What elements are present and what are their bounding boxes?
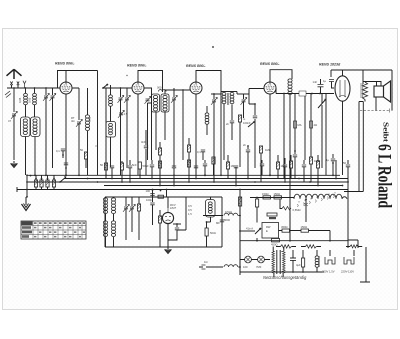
dot x284 bbox=[283, 93, 285, 95]
tube V4 RENS806 bbox=[264, 82, 276, 94]
wire x214 down bbox=[213, 160, 215, 182]
osc cap Cc2 bbox=[146, 197, 155, 225]
svg-text:100: 100 bbox=[243, 265, 248, 269]
cap Ch bbox=[234, 166, 238, 186]
cap above osc top bbox=[146, 189, 155, 195]
bandfilter box 2 bbox=[106, 122, 116, 138]
svg-text:220V-110V: 220V-110V bbox=[341, 270, 354, 274]
svg-text:1837: 1837 bbox=[170, 206, 176, 210]
transformer core vertical bbox=[272, 247, 285, 278]
tube V5 RENS1823d output bbox=[335, 70, 350, 101]
power right vertical bbox=[347, 240, 349, 248]
svg-text:3nF: 3nF bbox=[141, 140, 146, 144]
dial lamp 2 bbox=[256, 256, 264, 269]
resistor 4500 horizontal bbox=[279, 225, 302, 232]
osc coil Ld bbox=[111, 221, 115, 247]
table bottom left bbox=[21, 221, 86, 239]
svg-text:RENS 806/₄: RENS 806/₄ bbox=[186, 64, 206, 68]
svg-text:8000: 8000 bbox=[224, 218, 230, 222]
svg-text:41tr A: 41tr A bbox=[246, 227, 253, 231]
bus right angle down bbox=[347, 182, 349, 240]
svg-text:4,5: 4,5 bbox=[124, 112, 128, 116]
osc cap Cd2 bbox=[168, 223, 181, 240]
grid line V2 bbox=[103, 87, 132, 89]
dot coupling bbox=[311, 93, 313, 95]
resistor mid MA bbox=[294, 121, 302, 128]
osc tube wires bbox=[167, 197, 169, 247]
cap mid V3 bbox=[197, 150, 205, 160]
trimmer C6b left of IF1 bbox=[145, 96, 151, 160]
ground trunk bbox=[26, 175, 28, 197]
cap Ce bbox=[172, 166, 176, 186]
svg-text:RW: RW bbox=[266, 225, 271, 229]
speaker bbox=[363, 81, 391, 102]
vertical x290 bbox=[289, 213, 291, 241]
cap C9a below IF2 bbox=[226, 105, 234, 141]
cathode cap V1 bbox=[56, 149, 65, 158]
scan speck 2 bbox=[126, 75, 127, 76]
IF transformer 1 box a bbox=[152, 94, 160, 112]
osc resistor Rb2 bbox=[158, 210, 161, 247]
wire roof drop join bbox=[97, 71, 99, 176]
field choke bbox=[294, 192, 347, 207]
svg-text:MF: MF bbox=[216, 221, 220, 225]
cap C11 1nF bbox=[313, 79, 324, 94]
cap Cl bbox=[326, 154, 335, 175]
anode roof V2 bbox=[138, 71, 163, 93]
svg-text:MA: MA bbox=[298, 123, 302, 127]
junction dots row A bbox=[34, 174, 334, 176]
cap C7 below IF1 bbox=[141, 130, 148, 175]
cap row Cb bbox=[110, 166, 114, 179]
osc resistor Rc2 right bbox=[205, 222, 216, 247]
svg-text:0,5: 0,5 bbox=[188, 208, 192, 212]
IF transformer 2 bbox=[221, 92, 237, 161]
resistor Rg bbox=[259, 146, 270, 182]
svg-text:2n: 2n bbox=[243, 143, 246, 147]
table cell smudges bbox=[34, 222, 85, 237]
ground small left bbox=[11, 161, 18, 167]
wire v3 grid drop bbox=[182, 90, 184, 160]
wire x336 bbox=[335, 160, 337, 179]
lamp wires bbox=[240, 259, 270, 261]
osc coil Ld right bbox=[206, 197, 216, 223]
coil L3 right of V1 bbox=[85, 88, 91, 175]
resistor Rd bbox=[158, 161, 161, 186]
wire x284 bbox=[283, 94, 285, 179]
svg-text:0,5t/A: 0,5t/A bbox=[225, 210, 232, 214]
resistor Rb bbox=[120, 161, 123, 182]
trimmer C5 bbox=[124, 88, 130, 168]
svg-text:0,05: 0,05 bbox=[18, 97, 22, 103]
dot v4 bus bbox=[269, 174, 271, 176]
tube V3 RENS806 IF amp bbox=[190, 82, 202, 94]
antenna bbox=[5, 69, 26, 97]
voltage selector bbox=[322, 250, 354, 274]
svg-text:100nF: 100nF bbox=[243, 121, 251, 125]
coil L4 bbox=[109, 85, 113, 122]
small rect comp above box bbox=[267, 213, 277, 219]
svg-text:150Ω: 150Ω bbox=[262, 192, 269, 196]
anode roof V5 to output transformer bbox=[331, 70, 392, 111]
electrolytic cap power bbox=[290, 250, 301, 272]
svg-text:150Ω: 150Ω bbox=[301, 225, 308, 229]
anode out V2 bbox=[144, 88, 152, 160]
component row above bus: resistor Ra bbox=[100, 163, 108, 179]
wire x106 bbox=[105, 88, 107, 175]
resistor Rc 'MAL' bbox=[138, 162, 149, 179]
svg-text:1MΩ: 1MΩ bbox=[265, 148, 271, 152]
cathode drop V3 bbox=[195, 94, 197, 175]
svg-text:0,05: 0,05 bbox=[28, 97, 32, 103]
tube V1 RENS806 bbox=[60, 82, 72, 94]
bus line 2 bbox=[64, 178, 348, 180]
detector coil row 1 bbox=[203, 210, 240, 216]
power mid line bbox=[240, 240, 348, 242]
dashed ref line right bbox=[360, 110, 390, 112]
svg-text:50tΩ: 50tΩ bbox=[210, 231, 216, 235]
grid line V4 bbox=[249, 89, 264, 105]
trimmer C1 bbox=[43, 88, 49, 175]
coil L2 bbox=[28, 88, 37, 117]
cap Cc bbox=[128, 160, 137, 182]
svg-text:4Ω: 4Ω bbox=[314, 123, 318, 127]
svg-text:RENS 1823d: RENS 1823d bbox=[319, 63, 341, 67]
svg-text:50: 50 bbox=[80, 148, 83, 152]
svg-text:100: 100 bbox=[146, 189, 151, 193]
resistor top power trunk bbox=[239, 197, 242, 206]
cap C10 coupling bbox=[299, 91, 306, 96]
mains transformer primary winding bbox=[276, 245, 296, 248]
svg-text:1Ω: 1Ω bbox=[204, 260, 208, 264]
cap Cf bbox=[194, 160, 198, 179]
cathode drop V4 bbox=[269, 94, 271, 175]
power box RW bbox=[262, 223, 279, 239]
oscillator block frame bbox=[105, 197, 222, 247]
cathode resistor V1 bbox=[80, 148, 88, 168]
svg-text:0,1: 0,1 bbox=[197, 150, 201, 154]
cap on osc right edge bbox=[216, 217, 224, 226]
switch arrow mid power bbox=[239, 227, 261, 235]
svg-text:Seibt: Seibt bbox=[382, 122, 391, 143]
wire x305 bbox=[304, 96, 306, 160]
cathode drop V2 bbox=[137, 94, 139, 175]
svg-text:000: 000 bbox=[157, 86, 162, 90]
resistor R2 below IF2 bbox=[238, 115, 251, 167]
junction dots row D bbox=[159, 185, 343, 187]
anode coil L5 bbox=[288, 79, 292, 240]
wire antenna trunk down bbox=[13, 88, 15, 112]
grid stopper cap bbox=[323, 79, 334, 88]
speaker terminal wire bbox=[375, 97, 377, 111]
trimmer C6 bbox=[171, 88, 177, 167]
cathode drop V1 bbox=[65, 94, 67, 175]
svg-text:E: E bbox=[266, 229, 268, 233]
svg-text:RENS 806/₄: RENS 806/₄ bbox=[260, 62, 280, 66]
cap Ck bbox=[309, 94, 319, 183]
right coil small bbox=[315, 250, 319, 272]
svg-text:1,5: 1,5 bbox=[188, 212, 192, 216]
main grid line (top bus) bbox=[7, 87, 79, 89]
resistor Rh 1M right bbox=[276, 155, 286, 179]
resistor mid 4ohm bbox=[310, 121, 317, 128]
trimmer C8 bbox=[211, 93, 221, 160]
choke feed resistors 150ohm bbox=[250, 192, 294, 199]
resistor 1500 horizontal bbox=[301, 225, 331, 241]
svg-text:7MF: 7MF bbox=[256, 265, 262, 269]
bus line 5 bbox=[17, 189, 348, 191]
svg-text:1µ: 1µ bbox=[326, 158, 329, 162]
wires middle verticals to lower blocks bbox=[153, 190, 241, 198]
detector coil row 2 bbox=[199, 260, 240, 269]
dial lamp 1 bbox=[243, 256, 251, 269]
aux winding right bbox=[346, 245, 362, 248]
trimmer C3 below V1 bbox=[71, 88, 82, 175]
cathode drop V5 bbox=[342, 101, 344, 175]
svg-text:50nF: 50nF bbox=[143, 164, 149, 168]
bus line 3 bbox=[27, 181, 348, 183]
volume pot arrow bbox=[318, 94, 326, 169]
resistor Rf 1M bbox=[226, 155, 235, 179]
small cap on trunk bbox=[64, 163, 68, 175]
trimmer 4,5 mid bbox=[118, 110, 128, 117]
cap extra row 2 bbox=[302, 160, 306, 182]
right power edge line bbox=[360, 247, 370, 282]
svg-text:150Ω: 150Ω bbox=[274, 192, 281, 196]
svg-text:100p: 100p bbox=[146, 198, 152, 202]
svg-text:RENS 806/₄: RENS 806/₄ bbox=[55, 62, 75, 66]
resistor under trimmer bbox=[212, 157, 215, 176]
wire x326 bbox=[325, 94, 327, 176]
junction dots input bbox=[13, 87, 15, 89]
bottom return line right bbox=[344, 191, 363, 193]
wave switch S1 bbox=[102, 84, 108, 89]
resistor R1 bbox=[158, 142, 161, 175]
junction dots row C bbox=[97, 181, 311, 183]
cathode resistor V3 bbox=[187, 138, 190, 168]
scan speck 1 bbox=[212, 46, 214, 48]
resistor vertical top power bbox=[256, 197, 259, 223]
resistor Rj bbox=[316, 155, 319, 186]
tube V6 RCV1837 bbox=[162, 208, 173, 224]
resistor power right bbox=[302, 250, 305, 272]
svg-text:47: 47 bbox=[8, 119, 11, 123]
anode roof V3 bbox=[196, 71, 221, 95]
resistor below box bbox=[271, 239, 280, 247]
svg-text:4µF: 4µF bbox=[296, 263, 301, 267]
wires IF1 bbox=[148, 90, 166, 150]
osc inner wire bbox=[177, 197, 186, 230]
power left vertical bbox=[239, 197, 241, 272]
svg-text:Netzanschlussgetändig: Netzanschlussgetändig bbox=[263, 275, 307, 280]
wires under bandfilter1 bbox=[26, 137, 36, 176]
svg-text:0,5: 0,5 bbox=[188, 204, 192, 208]
svg-text:6 L Roland: 6 L Roland bbox=[374, 144, 394, 209]
small rect on osc top line bbox=[158, 190, 164, 199]
trimmer C8b right bbox=[237, 94, 249, 118]
coupling line V5 bbox=[276, 88, 334, 94]
switch arrow mid bbox=[248, 121, 255, 127]
cap C9 below IF2 bbox=[253, 103, 257, 168]
output transformer coil bbox=[361, 82, 368, 102]
bus line 1 bbox=[27, 174, 340, 176]
IF transformer 1 box b bbox=[161, 94, 169, 112]
coupling coil on IF1 top bbox=[157, 86, 166, 92]
cap extra row 1 bbox=[260, 160, 264, 175]
scan speck 3 bbox=[95, 145, 96, 146]
mains transformer secondary winding bbox=[301, 245, 321, 248]
grid cap stub V1 bbox=[65, 71, 67, 83]
bandfilter box 1a bbox=[21, 117, 31, 137]
cap Ci bbox=[243, 143, 250, 179]
wire x221 down bbox=[220, 160, 222, 175]
cap Cd bbox=[150, 160, 154, 179]
osc resistor Ra2 bbox=[137, 197, 140, 240]
power bottom line bbox=[240, 271, 324, 273]
junction dots row E bbox=[152, 189, 241, 191]
switch arrow on bus bbox=[59, 174, 67, 183]
osc coil Lb bbox=[103, 221, 107, 247]
trimmer C4 bbox=[118, 88, 124, 175]
grid line V3 bbox=[165, 89, 190, 91]
svg-text:4Ω: 4Ω bbox=[71, 119, 75, 123]
resistor extra row 1 bbox=[289, 155, 292, 179]
main ground bbox=[22, 197, 31, 211]
trimmer on antenna trunk bbox=[8, 111, 17, 160]
junction dots row B bbox=[87, 178, 337, 180]
tube V2 RENS806 mixer bbox=[132, 82, 144, 94]
svg-text:450Ω: 450Ω bbox=[281, 225, 288, 229]
osc trimmer Cb2 bbox=[129, 197, 135, 232]
wire x240 down bbox=[239, 197, 241, 275]
cap on right drop bbox=[343, 160, 350, 182]
output transformer drops bbox=[359, 102, 363, 192]
svg-text:2n: 2n bbox=[226, 122, 229, 126]
svg-text:RENS 806/₄: RENS 806/₄ bbox=[127, 64, 147, 68]
cap Cj bbox=[283, 158, 287, 182]
trimmer C2 bbox=[50, 88, 56, 168]
osc coil Lc bbox=[111, 197, 115, 221]
resistor row between buses bbox=[34, 175, 37, 190]
zigzag resistor 0,5M bbox=[280, 200, 300, 213]
dot under choke bbox=[304, 199, 308, 222]
bus left T end bbox=[16, 187, 18, 192]
svg-text:1µ: 1µ bbox=[323, 79, 326, 83]
svg-text:50: 50 bbox=[100, 163, 103, 167]
svg-text:50: 50 bbox=[343, 161, 346, 165]
svg-text:1nF: 1nF bbox=[313, 80, 318, 84]
resistor Ri bbox=[293, 94, 297, 179]
wire from return to transformer bbox=[348, 240, 358, 248]
AVC choke coil bbox=[205, 106, 209, 135]
coil L1 bbox=[18, 88, 27, 117]
svg-text:220V 1,5V: 220V 1,5V bbox=[322, 270, 335, 274]
svg-text:5nF: 5nF bbox=[132, 163, 137, 167]
osc coil La bbox=[103, 197, 107, 221]
cap Cg bbox=[203, 160, 207, 176]
osc trimmer Ca bbox=[123, 197, 129, 240]
anode roof V4 bbox=[270, 70, 292, 82]
svg-text:0,1: 0,1 bbox=[56, 149, 60, 153]
resistor Re bbox=[187, 160, 190, 182]
bandfilter box 1b bbox=[31, 117, 41, 137]
bus line 4 bbox=[104, 185, 343, 187]
svg-text:0,05: 0,05 bbox=[88, 116, 92, 122]
osc ground bbox=[165, 247, 172, 253]
svg-text:450Ω: 450Ω bbox=[271, 243, 278, 247]
svg-text:0,5MΩ: 0,5MΩ bbox=[293, 208, 301, 212]
anode roof V1 bbox=[58, 71, 98, 89]
